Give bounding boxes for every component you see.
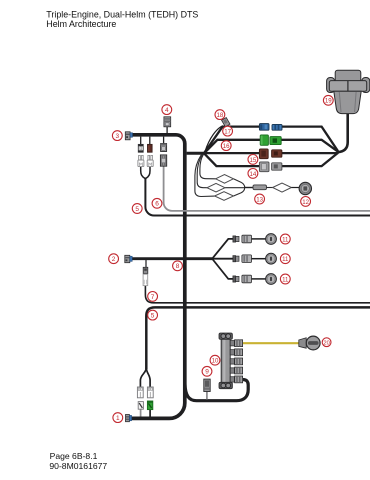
- svg-text:11: 11: [282, 256, 289, 263]
- svg-text:19: 19: [325, 98, 332, 105]
- wire 7: to right edge: [145, 286, 370, 303]
- svg-text:20: 20: [323, 340, 329, 346]
- connector 7 with sleeve: [143, 267, 148, 285]
- svg-text:1: 1: [116, 415, 120, 422]
- twisted pair diamond B: [207, 183, 225, 192]
- round connector assembly 11 (top): [233, 234, 277, 245]
- callout 14: [248, 169, 258, 179]
- connector 18: [222, 118, 230, 127]
- svg-text:5: 5: [135, 206, 139, 213]
- grey block connector on wire 6: [160, 155, 166, 166]
- wire: grey lead of connector 9: [206, 391, 208, 399]
- svg-text:90-8M0161677: 90-8M0161677: [49, 461, 107, 471]
- connector pair 16 (green): [260, 135, 281, 145]
- wire: drop lead 2: [149, 137, 151, 145]
- white male connector: [138, 402, 143, 410]
- wire: row to connector pair 14 (grey): [204, 153, 260, 166]
- wire: spade terminal leads merging: [141, 167, 145, 179]
- wire: drop lead 3: [163, 137, 165, 144]
- wire: lead up to connector 19: [338, 113, 348, 153]
- wire: connector 7 lead from helm feed: [145, 260, 147, 267]
- svg-text:Page 6B-8.1: Page 6B-8.1: [50, 451, 98, 461]
- callout 5 bottom: [148, 310, 158, 320]
- spade terminal right: [147, 155, 153, 166]
- wire: row to connector pair 15 (brown): [204, 152, 260, 154]
- svg-text:11: 11: [282, 276, 289, 283]
- wire: drop lead 1: [140, 137, 142, 145]
- connector pair 17 (blue): [259, 124, 282, 131]
- fuse holder female right: [147, 387, 153, 398]
- callout 11 bottom: [280, 274, 290, 284]
- wire: helm 2 feed from connector 2 with fan to three round connectors 11: [132, 257, 212, 260]
- svg-text:Triple-Engine, Dual-Helm (TEDH: Triple-Engine, Dual-Helm (TEDH) DTS: [46, 10, 198, 20]
- wire: twisted pair A lead: [200, 155, 216, 179]
- callout 1: [113, 413, 123, 423]
- callout 6: [152, 198, 162, 208]
- connector pair 15 (brown): [259, 149, 282, 159]
- callout 10: [210, 355, 220, 365]
- twisted pair diamond A: [216, 175, 234, 184]
- wire: twisted pair C lead: [195, 155, 215, 197]
- wire: filter 13 to diamond: [266, 187, 272, 189]
- svg-text:8: 8: [176, 263, 180, 270]
- svg-text:4: 4: [165, 107, 169, 114]
- wire: connector 4 lead: [166, 127, 168, 133]
- round connector assembly 11 (middle): [233, 253, 277, 264]
- wire: junction to inline filter 13: [244, 187, 253, 189]
- callout 18: [215, 110, 225, 120]
- callout 4: [162, 105, 172, 115]
- connector 3: [125, 132, 132, 140]
- inline filter 13: [253, 185, 267, 190]
- svg-text:18: 18: [217, 112, 224, 119]
- svg-text:7: 7: [151, 294, 155, 301]
- callout 19: [323, 95, 333, 105]
- twisted pair diamond C: [215, 192, 234, 201]
- connector 19 (engine harness plug): [327, 70, 370, 113]
- connector 1: [126, 415, 132, 422]
- svg-text:2: 2: [112, 256, 116, 263]
- wire: branch from trunk to busbar bottom terminal: [185, 380, 248, 401]
- callout 13: [255, 194, 265, 204]
- busbar 10: [219, 333, 232, 389]
- wire: main harness trunk from connector 3 down to connector 1: [131, 135, 185, 419]
- round connector assembly 11 (bottom): [233, 274, 277, 285]
- callout 20: [322, 338, 331, 347]
- callout 15: [248, 155, 258, 165]
- callout 7: [148, 292, 158, 302]
- callout 11 top: [280, 234, 290, 244]
- round connector 12: [299, 182, 311, 194]
- svg-text:11: 11: [282, 236, 289, 243]
- wire 5 (bottom): from right edge down to fuse connectors: [146, 307, 370, 369]
- svg-text:9: 9: [205, 369, 209, 376]
- wire: connector 18 lead: [205, 126, 223, 152]
- wire: hub feed from trunk: [187, 152, 205, 155]
- svg-text:Helm Architecture: Helm Architecture: [46, 19, 116, 29]
- busbar terminal stacks: [230, 340, 242, 347]
- svg-text:13: 13: [256, 196, 263, 203]
- callout 9: [202, 366, 212, 376]
- wire: row to connector pair 16 (green): [204, 140, 261, 154]
- twisted pair diamond D: [273, 183, 292, 192]
- stud terminal 20: [299, 336, 320, 350]
- wire: twisted pair B lead: [197, 155, 207, 188]
- callout 3: [112, 131, 122, 141]
- svg-text:17: 17: [224, 129, 231, 136]
- connector 9: [204, 379, 210, 391]
- connector pair 14 (grey): [259, 162, 282, 172]
- wire: grey lead below white connector: [140, 409, 142, 416]
- wire: yellow jumper busbar to stud 20: [242, 342, 298, 344]
- callout 11 middle: [280, 254, 290, 264]
- callout 16: [221, 141, 231, 151]
- svg-text:5: 5: [151, 313, 155, 320]
- svg-text:14: 14: [250, 171, 257, 178]
- svg-text:6: 6: [155, 201, 159, 208]
- svg-text:3: 3: [115, 133, 119, 140]
- wire: diamond to connector 12: [291, 187, 299, 189]
- callout 2: [109, 254, 119, 264]
- wire 6 (grey) to right edge: [164, 166, 370, 211]
- green male connector: [147, 401, 152, 410]
- callout 17: [223, 126, 233, 136]
- wire: twisted pair B to junction: [225, 187, 245, 189]
- svg-text:16: 16: [223, 143, 230, 150]
- svg-text:15: 15: [250, 157, 257, 164]
- spade terminal left: [138, 155, 144, 166]
- callout 5 top: [132, 204, 142, 214]
- wire: row to connector pair 17 (blue): [204, 127, 260, 154]
- wire: twisted pair A to junction: [233, 179, 244, 188]
- svg-text:12: 12: [302, 199, 309, 206]
- drop 3 grey connector: [161, 144, 167, 152]
- inline fuse drop 1 (white with black caps): [138, 144, 143, 152]
- wire: black lead below green connector: [149, 410, 151, 417]
- svg-text:10: 10: [212, 358, 219, 365]
- callout 12: [301, 197, 311, 207]
- wire 5 (top): battery harness to right edge: [145, 178, 370, 216]
- callout 8: [173, 261, 183, 271]
- inline fuse drop 2 (maroon): [148, 144, 153, 152]
- wire: twisted pair C to junction: [234, 188, 245, 196]
- fuse holder female left: [137, 387, 143, 398]
- connector 2: [125, 255, 132, 262]
- connector 4: [164, 117, 171, 127]
